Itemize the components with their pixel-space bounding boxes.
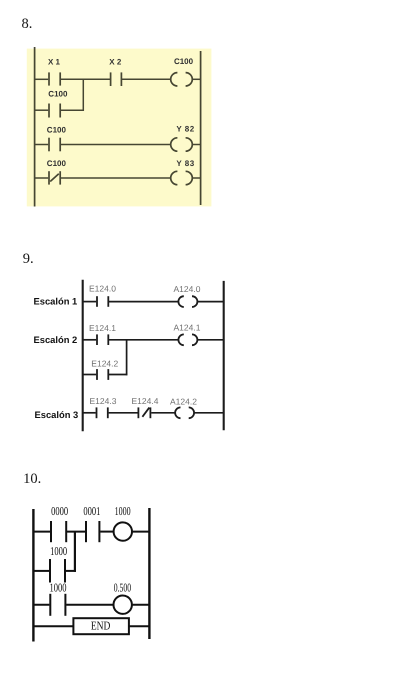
contact 0000 <box>51 521 66 542</box>
contact E124.4 NC <box>138 407 150 418</box>
label X1 <box>48 57 61 66</box>
diagram 10 right rail <box>148 508 150 639</box>
label Y82 <box>176 125 194 134</box>
label E124.2 <box>91 359 118 369</box>
diagram 9 left rail <box>82 280 84 431</box>
contact E124.0 <box>97 296 108 307</box>
contact X1 <box>49 72 60 85</box>
wire m-rung2 mid <box>66 604 113 606</box>
wire e-rung2b right <box>109 374 127 376</box>
svg-text:0000: 0000 <box>51 504 68 518</box>
svg-text:END: END <box>91 619 111 633</box>
wire m-rung1b left <box>33 570 49 572</box>
label 1000 coil <box>115 504 131 518</box>
label Y83 <box>176 159 194 168</box>
svg-text:E124.3: E124.3 <box>90 396 117 406</box>
svg-text:Escalón 1: Escalón 1 <box>34 296 78 307</box>
label E124.1 <box>89 323 116 333</box>
svg-text:1000: 1000 <box>50 580 67 594</box>
wire e-rung3 right <box>194 412 224 414</box>
contact E124.3 <box>97 407 108 418</box>
coil 1000 circle <box>114 522 132 540</box>
svg-text:Escalón 3: Escalón 3 <box>35 409 79 420</box>
wire m-rung1 right <box>132 531 149 533</box>
label 0001 <box>83 504 100 518</box>
svg-text:0.500: 0.500 <box>114 580 131 594</box>
wire rung3 right <box>192 177 200 179</box>
label END <box>91 619 111 633</box>
item number 9 <box>23 252 34 267</box>
svg-text:A124.2: A124.2 <box>170 396 197 406</box>
wire e-rung1 left <box>83 301 97 303</box>
svg-text:Escalón 2: Escalón 2 <box>34 334 78 345</box>
wire e-rung3 mid2 <box>151 412 175 414</box>
svg-text:C100: C100 <box>48 90 68 99</box>
wire m-rung2 left <box>33 604 49 606</box>
contact C100 parallel <box>49 104 60 118</box>
wire rung1 mid1 <box>61 78 110 80</box>
coil Y83 <box>171 171 193 184</box>
END box <box>73 618 128 634</box>
coil A124.1 <box>178 334 197 345</box>
wire m-rung1b right <box>66 570 76 572</box>
wire e-rung1 mid <box>109 301 179 303</box>
label X2 <box>109 57 122 66</box>
label A124.0 <box>174 284 201 294</box>
label A124.1 <box>174 323 201 333</box>
diagram 8 right rail <box>200 51 202 205</box>
svg-text:X 1: X 1 <box>48 57 61 66</box>
diagram 8 left rail <box>34 47 36 207</box>
coil A124.0 <box>178 296 197 307</box>
svg-text:C100: C100 <box>174 57 194 66</box>
wire e-rung3 left <box>83 412 96 414</box>
contact X2 <box>111 72 122 86</box>
svg-text:A124.0: A124.0 <box>174 284 201 294</box>
svg-text:1000: 1000 <box>50 544 67 558</box>
svg-text:Y 83: Y 83 <box>176 159 194 168</box>
item number 8 <box>22 17 33 32</box>
wire rung2 right <box>192 144 200 146</box>
wire rung1b right <box>61 109 84 111</box>
label A124.2 <box>170 396 197 406</box>
wire rung3 mid <box>61 177 171 179</box>
svg-text:E124.4: E124.4 <box>132 396 159 406</box>
label E124.0 <box>89 283 116 293</box>
wire rung3 left <box>35 177 49 179</box>
label C100 rung3 <box>47 159 67 168</box>
label 0500 <box>114 580 131 594</box>
wire rung1 left <box>35 78 49 80</box>
wire e-rung2 right <box>197 339 223 341</box>
svg-text:0001: 0001 <box>83 504 100 518</box>
label 1000 parallel <box>50 544 67 558</box>
label Escalon 2 <box>34 334 78 345</box>
svg-text:1000: 1000 <box>115 504 131 518</box>
wire rung1 right <box>192 78 200 80</box>
wire rung1 mid2 <box>122 78 171 80</box>
branch wire m-rung1 vertical <box>74 532 76 572</box>
wire e-rung2b left <box>83 374 97 376</box>
label 0000 <box>51 504 68 518</box>
wire e-rung3 mid1 <box>109 412 138 414</box>
contact 1000 parallel <box>50 559 65 583</box>
svg-text:X 2: X 2 <box>109 57 122 66</box>
wire m-rung3 right <box>129 625 150 627</box>
label C100 rung2 <box>47 125 67 134</box>
item number 10 <box>23 472 41 487</box>
svg-text:E124.1: E124.1 <box>89 323 116 333</box>
diagram 10 left rail <box>32 509 34 642</box>
wire rung2 left <box>35 144 49 146</box>
branch wire vertical rung1 <box>82 79 84 111</box>
contact 0001 <box>86 521 99 542</box>
contact C100 NC rung3 <box>49 171 60 184</box>
svg-text:E124.2: E124.2 <box>91 359 118 369</box>
wire m-rung1 mid1 <box>67 531 85 533</box>
contact E124.2 <box>97 369 108 380</box>
coil C100 <box>171 73 193 86</box>
wire m-rung3 left <box>33 625 73 627</box>
contact C100 rung2 <box>49 138 60 152</box>
wire e-rung1 right <box>197 301 223 303</box>
svg-text:A124.1: A124.1 <box>174 323 201 333</box>
label C100 parallel <box>48 90 68 99</box>
label E124.3 <box>90 396 117 406</box>
wire rung2 mid <box>61 144 171 146</box>
wire m-rung2 right <box>132 604 150 606</box>
wire e-rung2 left <box>83 339 97 341</box>
label E124.4 <box>132 396 159 406</box>
svg-text:E124.0: E124.0 <box>89 283 116 293</box>
label coil C100 <box>174 57 194 66</box>
contact E124.1 <box>97 334 108 345</box>
label 1000 rung2 <box>50 580 67 594</box>
contact 1000 rung2 <box>50 594 65 616</box>
branch wire e-rung2 vertical <box>126 340 128 376</box>
label Escalon 1 <box>34 296 78 307</box>
coil A124.2 <box>175 407 194 418</box>
wire e-rung2 mid <box>109 339 179 341</box>
wire m-rung1 left <box>33 531 50 533</box>
coil Y82 <box>171 138 193 151</box>
wire m-rung1 mid2 <box>100 531 113 533</box>
svg-text:C100: C100 <box>47 125 67 134</box>
coil 0500 circle <box>114 596 132 614</box>
diagram 8 background <box>27 49 212 207</box>
svg-text:Y 82: Y 82 <box>176 125 194 134</box>
wire rung1b left <box>35 109 49 111</box>
diagram 9 right rail <box>223 281 225 430</box>
label Escalon 3 <box>35 409 79 420</box>
svg-text:C100: C100 <box>47 159 67 168</box>
